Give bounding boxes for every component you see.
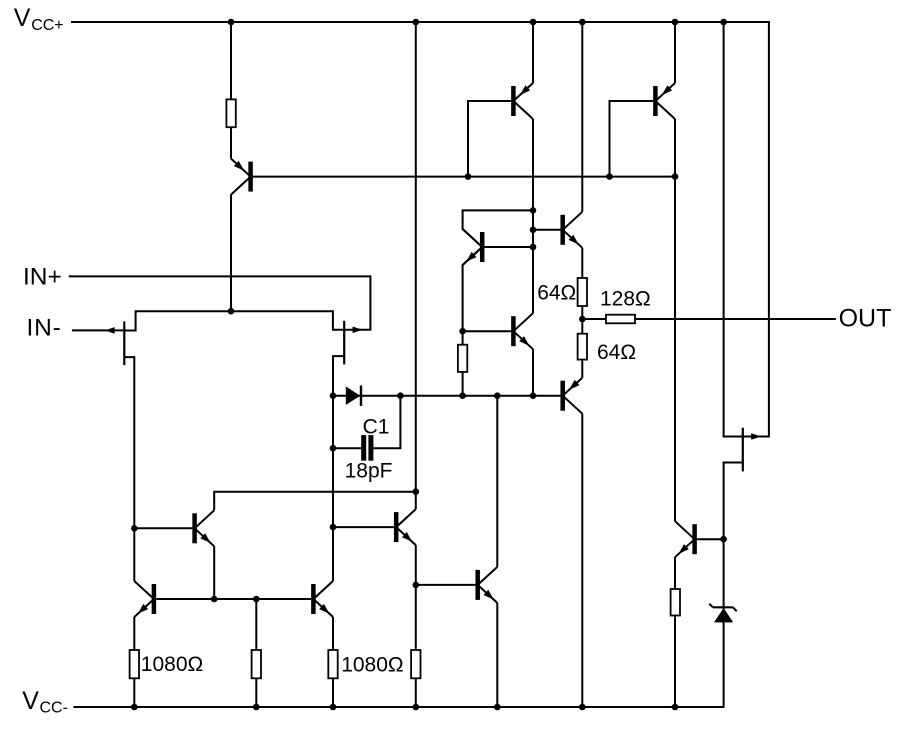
svg-text:18pF: 18pF: [345, 460, 393, 483]
wire Q10 emitter down through Q11 base tap to resistor R9: [415, 545, 417, 650]
wire Q6 collector down to VCC- rail: [581, 414, 583, 707]
transistor Q3 (PNP current source right): [653, 83, 675, 119]
wire Q3 collector tie to x533 bus: [463, 210, 533, 247]
wire IN- lead to left JFET gate: [72, 329, 123, 331]
net label VCC+: [14, 4, 64, 34]
resistor R4 (Q3 emitter): [458, 345, 467, 372]
node Q13 base junction: [720, 536, 727, 543]
node VCC+ rail junctions: [228, 19, 727, 26]
wire VAS input node line with diode D1: [333, 395, 560, 397]
wire R9 to VCC- rail: [415, 678, 417, 707]
node mirror base junctions: [211, 596, 260, 603]
value label C1: [363, 416, 390, 439]
JFET J3 (output clamp): [743, 428, 761, 472]
svg-text:IN-: IN-: [27, 314, 62, 341]
wire left JFET lower terminal down left column to Q8 collector: [124, 357, 134, 581]
wire Q3 emitter down through node to resistor R4: [463, 247, 483, 345]
svg-text:64Ω: 64Ω: [537, 282, 576, 305]
wire Q8 emitter to resistor R5: [133, 617, 135, 650]
wire Q2L base loop to bias line: [468, 101, 511, 177]
value label 64 ohm upper: [537, 282, 576, 305]
node x533 bus junctions: [530, 207, 537, 399]
JFET J2 (non-inverting input, P-channel): [344, 321, 362, 365]
wire Q7 base tap from left column: [134, 527, 192, 529]
node diff-pair tail: [228, 308, 235, 315]
node x416 junctions: [413, 488, 420, 588]
resistor R6 (mirror base): [252, 650, 261, 678]
node Q7 base tap: [131, 525, 138, 532]
wire Q9 emitter to resistor R7: [332, 617, 334, 650]
node OUT junction: [579, 316, 586, 323]
transistor Q2 (PNP current source left): [511, 83, 533, 119]
net label OUT: [839, 305, 892, 333]
wire OUT node to 128ohm resistor: [582, 318, 606, 320]
wire R8 to VCC- rail: [674, 616, 676, 708]
wire Q5 base lead: [463, 330, 512, 332]
svg-text:OUT: OUT: [839, 305, 892, 333]
wire VCC+ down x416 column to Q10 collector: [415, 22, 417, 509]
JFET J1 (inverting input, P-channel): [105, 321, 125, 365]
svg-text:CC-: CC-: [40, 700, 68, 717]
wire Q2L collector down x533 bus to Q5 collector: [532, 119, 534, 313]
wire Q11 emitter down to VCC- rail: [496, 603, 498, 707]
resistor R1 (Q1 collector load): [226, 99, 235, 127]
node Q5 base tap: [459, 328, 466, 335]
transistor Q7 (PNP output lower): [560, 378, 582, 414]
resistor R5 1080&#937; (left tail): [130, 650, 139, 678]
wire IN+ lead to right JFET gate: [69, 276, 371, 329]
zener diode D2: [709, 604, 737, 623]
value label 64 ohm lower: [597, 341, 636, 364]
wire right JFET lower terminal down to compensation node and Q9 collector: [333, 356, 344, 581]
wire C1 right branch from diode cathode node: [373, 396, 400, 449]
transistor Q5 (NPN Darlington upper): [560, 212, 582, 248]
node compensation junctions: [330, 445, 337, 530]
svg-text:CC+: CC+: [31, 17, 63, 34]
value label 1080 ohm left: [141, 653, 203, 676]
resistor R3 128&#937; (output series): [606, 315, 635, 324]
node bias line junctions: [465, 173, 679, 180]
wire 128ohm resistor to OUT terminal: [635, 318, 836, 320]
svg-text:V: V: [14, 4, 31, 32]
transistor Q4 (diode-connected): [463, 229, 485, 265]
wire R7 to VCC- rail: [332, 678, 334, 707]
wire Q4 base lead: [533, 229, 560, 231]
svg-text:1080Ω: 1080Ω: [341, 653, 403, 676]
svg-text:V: V: [22, 687, 39, 715]
transistor Q8 (NPN beta helper): [192, 510, 214, 546]
svg-text:64Ω: 64Ω: [597, 341, 636, 364]
diode D1: [346, 386, 361, 406]
net label VCC-: [22, 687, 68, 717]
wire Q7 collector over to x416 column: [214, 492, 416, 511]
transistor Q10 (NPN mirror right): [311, 581, 333, 617]
svg-text:C1: C1: [363, 416, 390, 439]
net label IN+: [23, 264, 62, 291]
wire R5 to VCC- rail: [133, 678, 135, 707]
wire Q2R collector down x675 bus to Q12 collector: [674, 119, 676, 521]
wire Q5 emitter down to VAS input node: [532, 349, 534, 396]
wire diff-pair top bus joining both JFET upper terminals: [124, 311, 344, 330]
wire Q12 base lead to zener column: [697, 538, 724, 540]
wire Q11 base lead from x416 column: [416, 584, 476, 586]
wire VCC+ to output JFET gate via vertical drop: [724, 22, 743, 437]
wire Q4 emitter to upper 64ohm resistor: [581, 248, 583, 278]
transistor Q9 (NPN mirror left): [134, 581, 156, 617]
wire Q2R emitter to VCC+ rail: [674, 22, 676, 83]
wire Q1 collector rail feed through R1 (upper segment): [230, 22, 232, 99]
value label 1080 ohm right: [341, 653, 403, 676]
svg-text:IN+: IN+: [23, 264, 62, 291]
wire VCC+ rail with right-end drop to output JFET drain: [71, 22, 769, 437]
node VAS input line junctions: [330, 392, 501, 399]
transistor Q12 (NPN output upper driver): [475, 567, 497, 603]
wire Q10 base lead from compensation column: [333, 526, 394, 528]
transistor Q6 (NPN Darlington lower): [511, 313, 533, 349]
node VCC- rail junctions: [131, 704, 678, 711]
wire C1 left plate to compensation column: [333, 447, 361, 449]
wire lower 64ohm to Q6 emitter: [581, 360, 583, 378]
wire upper 64ohm to lower 64ohm through OUT node: [581, 306, 583, 334]
wire Q7 emitter down to mirror base line: [213, 546, 215, 599]
resistor R2b 64&#937; (lower output): [578, 334, 587, 360]
wire Q2R base loop to bias line: [610, 101, 654, 177]
resistor R8 (Q12 emitter): [671, 589, 680, 616]
wire mirror base node down to resistor R6: [255, 599, 257, 650]
wire Q1 collector down to diff-pair source node: [230, 195, 232, 312]
wire Q2L emitter to VCC+ rail: [532, 22, 534, 83]
wire Q12 emitter to resistor R8: [674, 557, 676, 589]
wire R1 to Q1 emitter join: [230, 127, 232, 158]
net label IN-: [27, 314, 62, 341]
wire R4 to VAS input node: [462, 372, 464, 396]
resistor R9 (Q10 emitter): [411, 650, 420, 678]
resistor R2 64&#937; (upper output): [578, 278, 587, 306]
resistor R7 1080&#937; (Q9 emitter): [328, 650, 337, 678]
transistor Q11 (NPN bias right): [394, 509, 416, 545]
value label 128 ohm: [600, 288, 651, 311]
wire Q3 base to x533 bus: [484, 246, 533, 248]
capacitor C1 18pF: [361, 435, 373, 461]
wire Q4 collector to VCC+ rail: [581, 22, 583, 212]
wire mirror base line Q8 to Q9: [156, 598, 311, 600]
wire VCC- rail with right-end rise through zener and JFET source step: [74, 463, 743, 708]
transistor Q1 (PNP bias): [231, 159, 253, 195]
value label 18pF: [345, 460, 393, 483]
svg-text:128Ω: 128Ω: [600, 288, 651, 311]
wire R6 to VCC- rail: [255, 678, 257, 707]
transistor Q13 (NPN right column): [675, 521, 697, 557]
wire Q11 collector up to VAS input node: [496, 396, 498, 567]
svg-text:1080Ω: 1080Ω: [141, 653, 203, 676]
wire Q1 base bias line to Q2L/Q2R bases: [253, 176, 675, 178]
